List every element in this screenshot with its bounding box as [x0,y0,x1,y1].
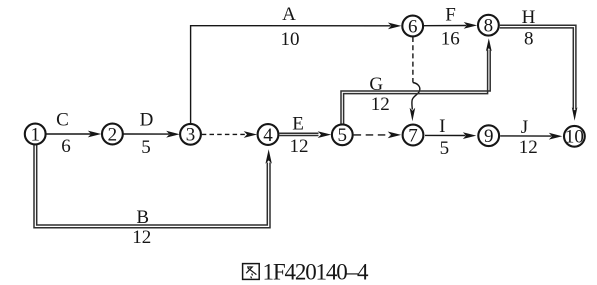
node 2 [102,124,123,146]
svg-text:12: 12 [290,136,309,157]
svg-text:8: 8 [524,28,534,49]
svg-text:E: E [292,114,304,135]
svg-text:4: 4 [263,125,273,146]
node 6 [402,16,423,38]
svg-text:8: 8 [484,16,494,37]
svg-text:5: 5 [440,138,450,159]
wire dummy (3-4) dashed [202,131,257,138]
node 7 [403,125,424,147]
node 1 [25,124,46,146]
wire J (9-10) [500,133,562,140]
node 4 [258,124,279,146]
svg-text:12: 12 [132,227,151,248]
caption glyph 图 [243,264,260,280]
svg-text:1: 1 [30,124,40,145]
svg-text:6: 6 [61,136,71,157]
wire G (5-8) double line up-right-up [341,38,492,124]
svg-text:5: 5 [141,137,151,158]
svg-text:10: 10 [281,29,300,50]
svg-text:3: 3 [186,125,196,146]
svg-text:A: A [282,4,296,25]
wire E (4-5) double line [279,131,331,138]
svg-text:2: 2 [108,124,118,145]
node 3 [180,124,201,146]
svg-text:9: 9 [484,126,494,147]
wire dummy (6-7) dashed with hop over G [410,37,420,121]
svg-text:16: 16 [441,28,460,49]
svg-text:5: 5 [338,125,348,146]
svg-text:J: J [521,117,528,138]
svg-text:C: C [56,110,69,131]
svg-text:G: G [369,74,383,95]
node 5 [332,124,353,146]
svg-text:7: 7 [408,125,418,146]
svg-text:12: 12 [519,137,538,158]
svg-text:1F420140–4: 1F420140–4 [263,259,369,284]
svg-text:12: 12 [371,94,390,115]
wire D (2-3) [123,131,180,138]
wire A (3-6) up and right [191,23,402,124]
wire C (1-2) [46,131,101,138]
wire I (7-9) [425,132,476,139]
node 10 [564,126,585,148]
wire H (8-10) double line right-down [500,25,578,121]
svg-text:D: D [140,110,154,131]
node 9 [478,125,499,147]
svg-text:10: 10 [565,127,584,148]
svg-text:H: H [522,7,536,28]
wire B (1-4) double line down-right-up [34,145,272,228]
svg-text:I: I [439,116,445,137]
svg-text:F: F [445,5,456,26]
node 8 [478,15,499,37]
wire dummy (5-7) dashed [354,132,402,139]
svg-text:6: 6 [408,16,418,37]
wire F (6-8) [424,22,477,29]
svg-text:B: B [136,207,149,228]
